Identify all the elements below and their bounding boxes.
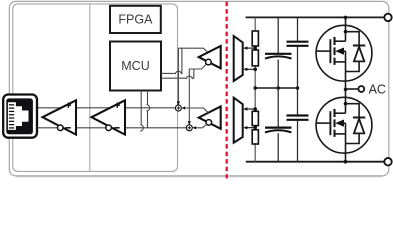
svg-text:MCU: MCU xyxy=(121,59,149,73)
Q2 body arrow xyxy=(335,120,344,127)
capacitor C1 (electrolytic) xyxy=(265,54,292,59)
Q1 body arrow xyxy=(335,48,344,55)
Q1 gate lead xyxy=(316,50,330,52)
wire sense tap arrow 3 into A2 xyxy=(247,108,256,110)
Q1 channel segments xyxy=(333,37,335,65)
resistor R2 xyxy=(252,50,258,66)
wire Q1 drain from top bus with junction dots xyxy=(345,17,347,41)
terminal DC- bottom right xyxy=(384,158,391,165)
Q2 diode connector top xyxy=(346,104,360,118)
transistor Q1 (top MOSFET with body diode D1) xyxy=(316,16,372,90)
diode D1 cathode bar xyxy=(353,45,365,47)
node dot R1/R2 xyxy=(253,46,257,50)
svg-text:AC: AC xyxy=(369,82,386,96)
capacitor C3 xyxy=(287,42,309,46)
resistor R1 xyxy=(252,31,258,46)
wire AC stub xyxy=(346,88,358,90)
ethernet jack J1 xyxy=(3,95,37,138)
Q2 channel segments xyxy=(333,109,335,137)
capacitor C4 xyxy=(287,116,309,120)
wire MCU bottom pin 2 (hop over top rail) xyxy=(147,91,150,128)
wire V1 node A down into summing node S1 (arrow) xyxy=(177,48,179,104)
wire U4 bubble to S2 (arrow) xyxy=(196,124,207,128)
Q1 drain stub xyxy=(335,40,346,42)
node dot R3/R4 xyxy=(253,126,257,130)
iso modulator A2 (trapezoid) xyxy=(234,98,243,143)
terminal DC+ top right xyxy=(384,14,391,21)
wire MCU right pin 1 (hop over V1) xyxy=(161,71,182,74)
wire MCU bottom pin 1 (hop over bottom rail) xyxy=(140,91,143,132)
wire receive rail bottom (J1 to S2) xyxy=(32,127,187,129)
junction dot mid rail / C1-C2 rail xyxy=(276,86,280,90)
Q2 gate bar xyxy=(329,111,331,135)
wire bottom DC bus xyxy=(246,161,385,163)
Q1 source riser / node line xyxy=(345,51,347,89)
wire sense tap arrow 2 into A1 xyxy=(247,68,256,70)
Q2 drain stub xyxy=(335,112,346,114)
wire node B to U3 bubble xyxy=(189,64,206,69)
resistor R4 xyxy=(252,130,258,144)
summing node S1 xyxy=(175,105,181,111)
FPGA block U5 xyxy=(110,6,161,33)
diode D1 triangle xyxy=(354,47,364,62)
MCU block U6 xyxy=(110,42,161,91)
buffer amp U2 xyxy=(92,100,126,134)
wire Q2 drain from AC node with junction dot xyxy=(345,90,347,114)
Q2 body circle xyxy=(316,97,372,153)
junction dot mid rail / divider rail xyxy=(253,86,257,90)
terminal AC xyxy=(358,86,364,92)
junction dot mid rail / C3-C4 rail xyxy=(296,86,300,90)
wire receive rail top (J1 to S1) xyxy=(32,107,176,109)
bubble xyxy=(58,125,64,131)
wire mid rail xyxy=(255,87,297,89)
capacitor C2 (electrolytic) xyxy=(265,128,292,133)
outer frame xyxy=(9,1,389,176)
Q1 diode connector bottom xyxy=(346,61,360,71)
Q1 body circle xyxy=(316,25,372,81)
Q2 source riser to bottom bus xyxy=(345,123,347,162)
wire riser pin1 to node A xyxy=(181,48,183,73)
wire C1/C2 rail xyxy=(277,17,279,161)
buffer amp U1 xyxy=(43,100,77,134)
iso receiver amp U4 xyxy=(199,106,221,128)
node dot above R3 xyxy=(253,107,257,111)
diode D2 triangle xyxy=(354,119,364,134)
wire MCU right pin 2 (hop over V2) xyxy=(161,76,192,79)
Q1 diode connector top xyxy=(346,32,360,46)
bubble xyxy=(106,125,112,131)
resistor R3 xyxy=(252,111,258,125)
iso modulator A1 (trapezoid) xyxy=(234,36,243,81)
svg-text:FPGA: FPGA xyxy=(118,13,153,27)
wire sense tap arrow 1 into A1 xyxy=(247,47,256,49)
wire node A to U3 input edge xyxy=(178,48,207,52)
summing node S2 xyxy=(186,125,192,131)
Q1 gate bar xyxy=(329,39,331,63)
Q2 gate lead xyxy=(316,122,330,124)
wire sense tap arrow 4 into A2 xyxy=(247,127,256,129)
wire V2 node B down into summing node S2 (arrow) xyxy=(188,69,190,124)
Q2 diode connector bottom xyxy=(346,133,360,143)
Q2 source stub xyxy=(335,133,346,135)
wire C3/C4 rail xyxy=(297,17,299,161)
wire top DC bus xyxy=(246,16,385,18)
iso receiver amp U3 xyxy=(199,46,221,68)
Q1 source stub xyxy=(335,61,346,63)
junction dot node AC xyxy=(344,88,348,92)
wire riser pin2 to node B xyxy=(192,69,193,78)
wire U4 input edge to S1 (arrow) xyxy=(185,108,208,113)
diode D2 cathode bar xyxy=(353,117,365,119)
left inner frame xyxy=(13,4,178,172)
wire resistor divider rail xyxy=(254,17,256,161)
isolation barrier (red dashed) xyxy=(226,2,228,179)
node dot below R2 xyxy=(253,68,257,72)
transistor Q2 (bottom MOSFET with body diode D2) xyxy=(316,90,372,164)
frame divider xyxy=(89,4,91,172)
